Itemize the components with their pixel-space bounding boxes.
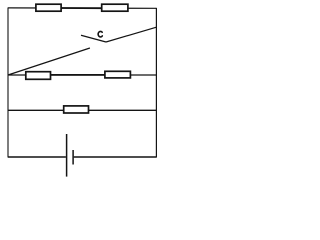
wire: right side of loop	[155, 8, 157, 158]
wire: diagonal from left junction to switch contact	[8, 48, 90, 75]
label C (switch)	[98, 31, 102, 37]
resistor R2	[102, 4, 128, 11]
wire: top side of loop	[8, 7, 156, 9]
resistor R4	[105, 71, 130, 78]
wire: top segment between R1 and R2	[60, 7, 103, 9]
resistor R1	[36, 4, 61, 11]
resistor R5	[64, 106, 89, 113]
resistor R3	[26, 72, 51, 80]
wire: middle segment between R3 and R4	[49, 74, 106, 76]
switch C blade (open)	[81, 35, 106, 42]
wire: middle branch	[8, 74, 156, 76]
wire: third branch	[8, 109, 156, 111]
wire: switch pivot to right side	[106, 27, 156, 42]
battery long plate	[66, 134, 68, 177]
wire: bottom left to battery	[8, 156, 66, 158]
wire: left side of loop	[7, 8, 9, 158]
wire: battery to bottom right	[74, 156, 157, 158]
battery short plate	[72, 150, 74, 165]
